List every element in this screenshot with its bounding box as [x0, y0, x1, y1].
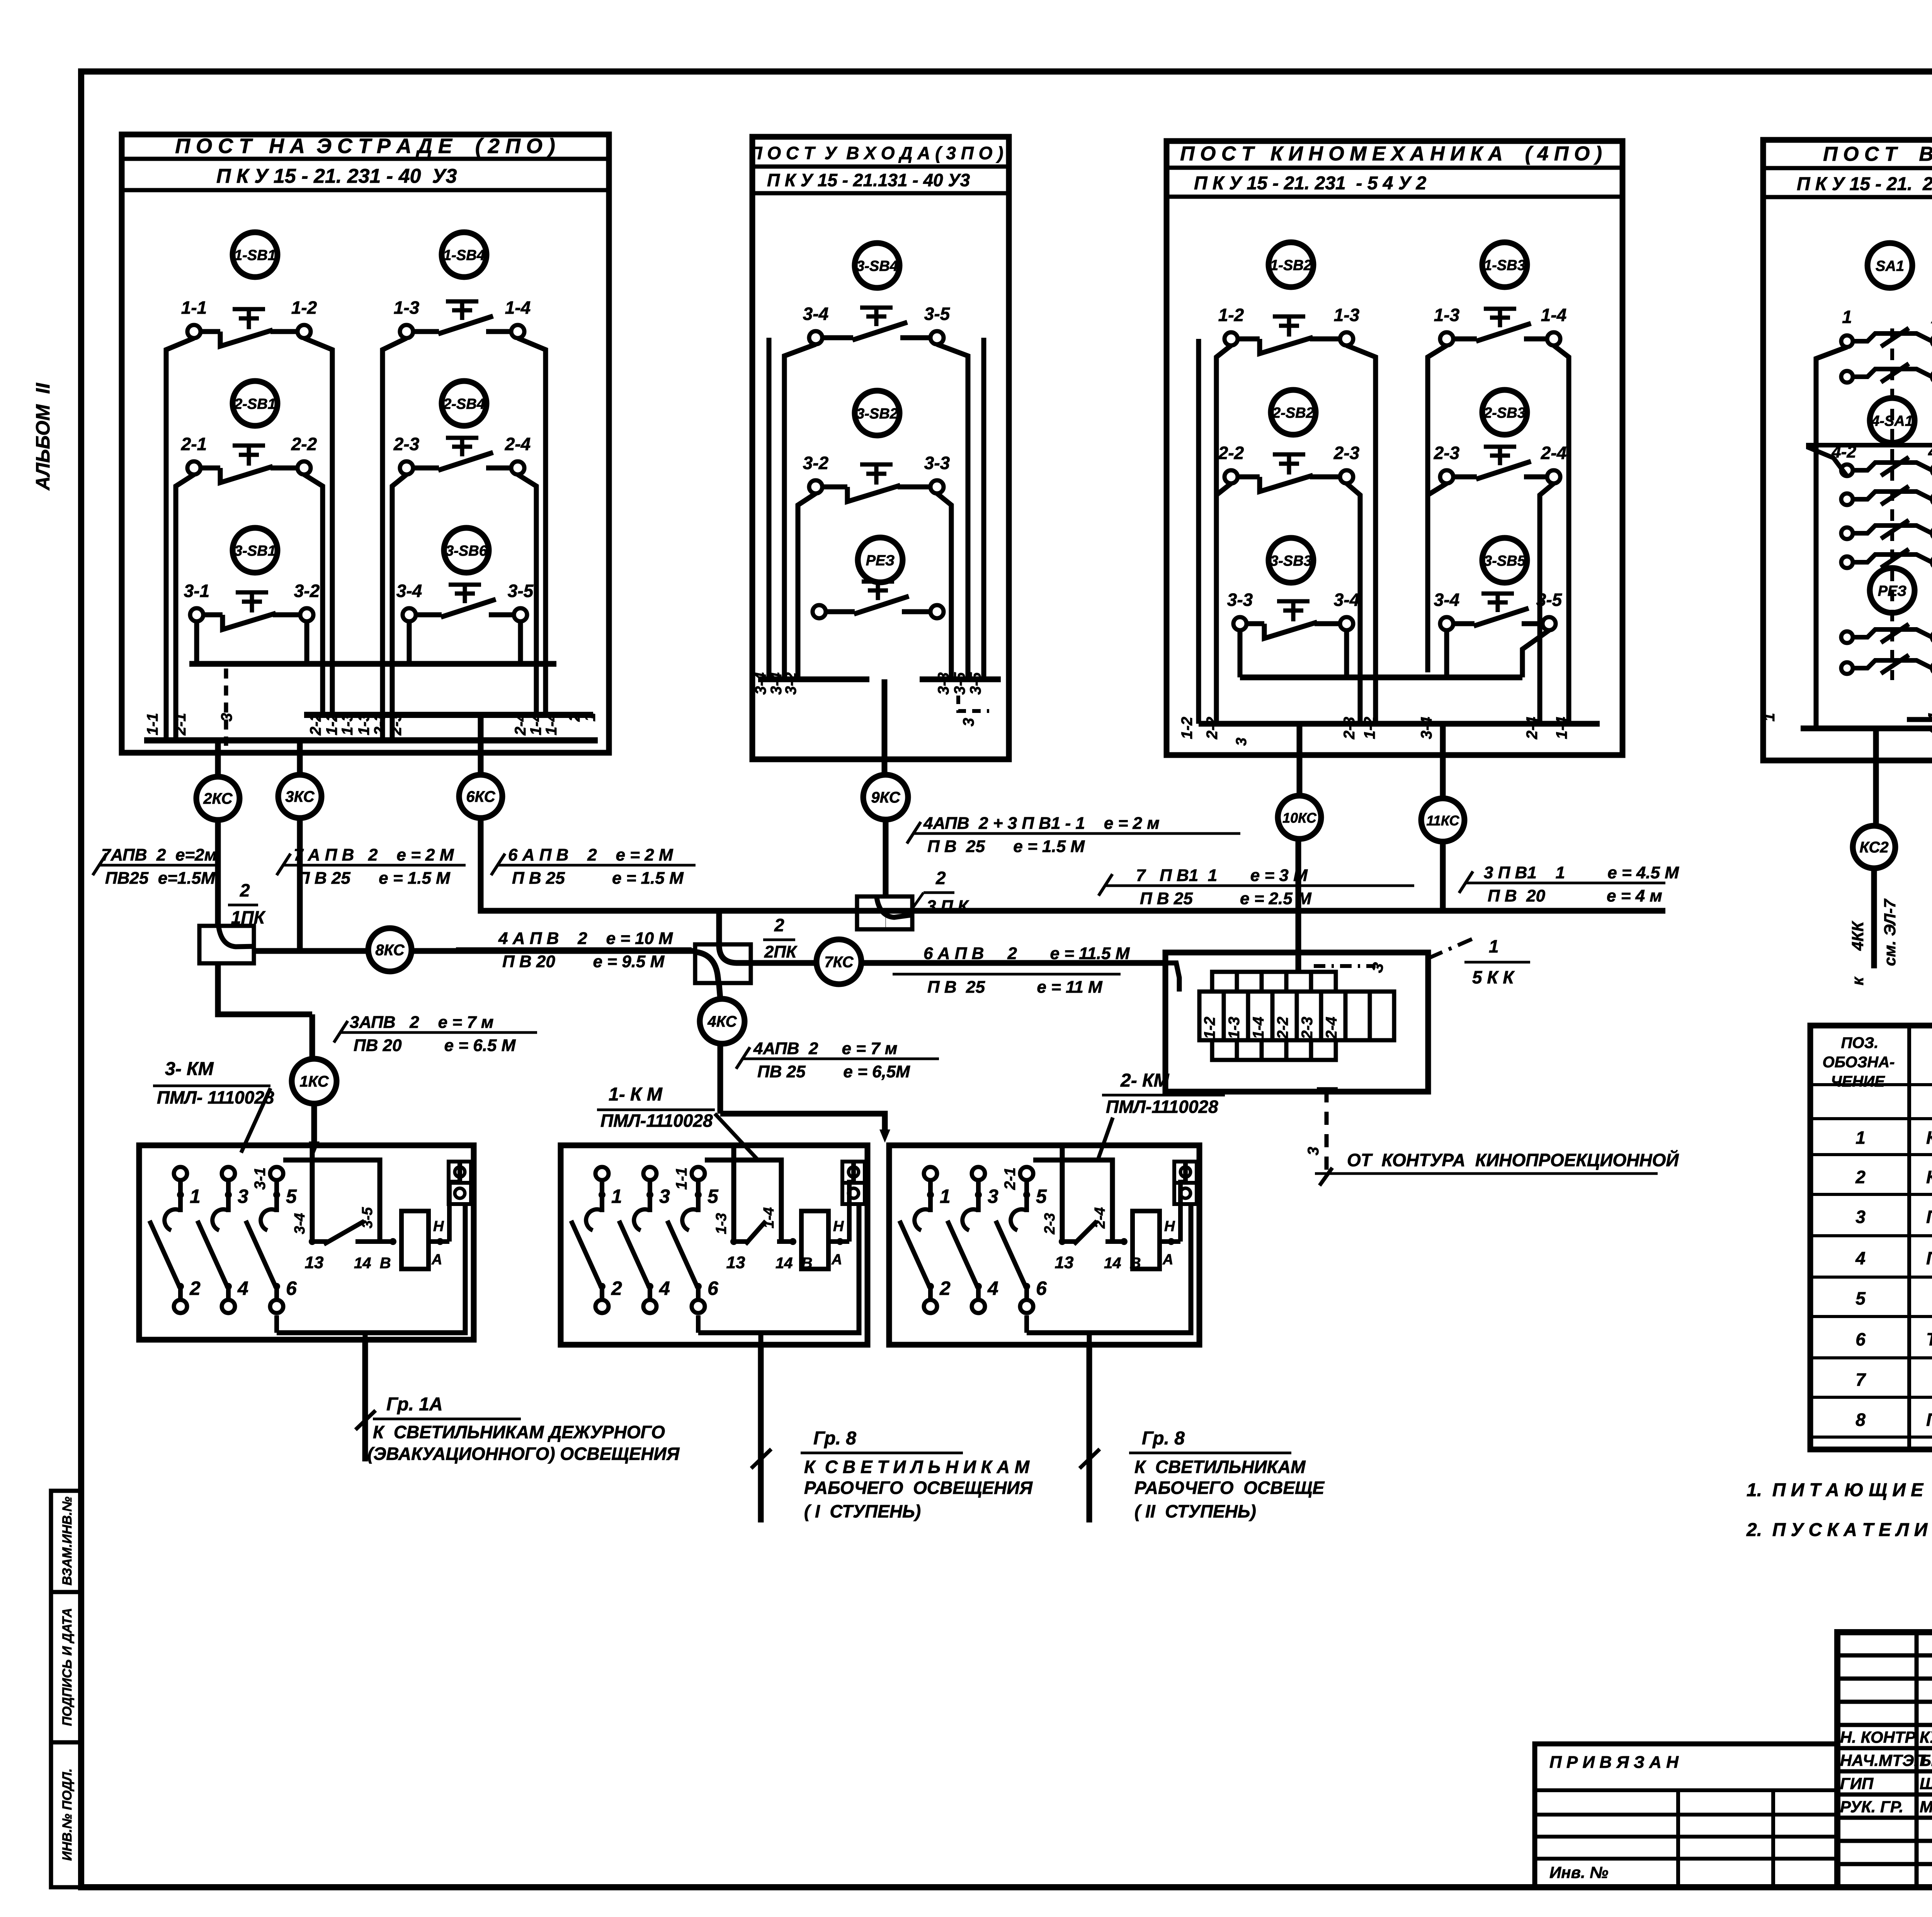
contact 2-3/2-4 — [400, 461, 413, 475]
contact 1-3/1-4 — [1440, 332, 1453, 345]
svg-text:2: 2 — [240, 880, 250, 900]
label 4APV+3PV1 — [912, 832, 1240, 835]
svg-text:1-2: 1-2 — [1179, 717, 1196, 739]
title block — [1837, 1632, 1932, 1887]
svg-text:2. П У С К А Т Е Л И 1 - К: 2. П У С К А Т Е Л И 1 - К М ... 3 К М У… — [1746, 1520, 1932, 1540]
svg-text:8: 8 — [1855, 1410, 1866, 1430]
svg-text:ШЕЛЕВИЛЯ: ШЕЛЕВИЛЯ — [1920, 1774, 1932, 1793]
svg-text:13: 13 — [1055, 1253, 1074, 1272]
svg-text:1-2: 1-2 — [291, 298, 317, 318]
svg-text:1-2: 1-2 — [323, 713, 340, 735]
svg-text:3-5: 3-5 — [508, 581, 534, 601]
svg-text:3: 3 — [659, 1186, 670, 1207]
svg-text:3: 3 — [238, 1186, 248, 1207]
svg-text:2: 2 — [774, 915, 784, 935]
wire 6KS down and right bus3 — [481, 818, 1665, 911]
svg-text:3-5: 3-5 — [924, 304, 951, 324]
svg-text:1-3: 1-3 — [394, 298, 420, 318]
svg-text:4КК: 4КК — [1849, 920, 1867, 951]
contact 3-4/3-5 — [403, 608, 416, 621]
contact 1/A — [1841, 335, 1853, 347]
5KK internal dash-dot mark — [1314, 964, 1376, 968]
svg-text:П В 25 е = 1.5 М: П В 25 е = 1.5 М — [927, 837, 1085, 856]
button 3-SB5 — [1482, 538, 1527, 583]
contact 2-3/2-4 — [1440, 470, 1453, 483]
selector REZ left — [1870, 568, 1915, 613]
svg-text:ПОДПИСЬ И ДАТА: ПОДПИСЬ И ДАТА — [60, 1608, 75, 1726]
svg-text:7: 7 — [1855, 1369, 1866, 1390]
svg-text:ГИП: ГИП — [1840, 1774, 1874, 1793]
svg-text:П В 20 е = 4 м: П В 20 е = 4 м — [1488, 886, 1662, 905]
svg-text:2-3: 2-3 — [1341, 717, 1358, 740]
svg-text:4: 4 — [659, 1277, 670, 1299]
button 2-SB4 — [442, 381, 486, 426]
svg-text:К О Р О Б К А У 272 У Х: К О Р О Б К А У 272 У Х Л 3 — [1926, 1167, 1932, 1187]
svg-text:4: 4 — [987, 1277, 998, 1299]
svg-text:3-3: 3-3 — [1227, 590, 1253, 610]
junction KS2 — [1853, 826, 1895, 868]
svg-text:13: 13 — [726, 1253, 745, 1272]
svg-text:1: 1 — [1855, 1128, 1866, 1148]
wire 10KS down to 5KK — [1296, 839, 1301, 972]
wire 4KS branch — [719, 985, 720, 999]
wires box2 — [784, 344, 816, 679]
contact 1-2/1-3 — [1225, 332, 1238, 345]
svg-text:2-SB2: 2-SB2 — [1272, 405, 1314, 421]
svg-text:3-3: 3-3 — [924, 453, 950, 473]
svg-text:3-4: 3-4 — [292, 1213, 308, 1234]
svg-text:2-2: 2-2 — [307, 713, 324, 736]
svg-text:ПМЛ-1110028: ПМЛ-1110028 — [600, 1111, 713, 1131]
svg-text:2-3: 2-3 — [1042, 1213, 1058, 1235]
svg-text:Гр. 8: Гр. 8 — [1142, 1428, 1185, 1449]
svg-text:ОТ КОНТУРА КИНОПРОЕКЦИОННОЙ: ОТ КОНТУРА КИНОПРОЕКЦИОННОЙ — [1347, 1150, 1679, 1170]
post box 2PO - POST NA ESTRADE — [122, 134, 609, 753]
svg-text:3-4: 3-4 — [803, 304, 828, 324]
wire taps to KS circles — [215, 740, 221, 777]
svg-text:П В 25 е = 1.5 М: П В 25 е = 1.5 М — [512, 869, 684, 888]
svg-text:10КС: 10КС — [1282, 810, 1317, 826]
svg-text:2-1: 2-1 — [181, 434, 207, 454]
svg-text:6: 6 — [286, 1277, 297, 1299]
svg-text:ПВ25 е=1.5М: ПВ25 е=1.5М — [105, 869, 216, 888]
svg-text:3-SB5: 3-SB5 — [1484, 553, 1526, 569]
5KK label leader dash-dot — [1428, 939, 1472, 958]
svg-text:3-SB6: 3-SB6 — [446, 543, 488, 559]
svg-text:3-4: 3-4 — [396, 581, 422, 601]
svg-text:П В 25 е = 11 М: П В 25 е = 11 М — [927, 978, 1103, 997]
svg-text:А: А — [831, 1252, 842, 1268]
svg-text:1-2: 1-2 — [1218, 305, 1244, 325]
svg-text:5: 5 — [1036, 1186, 1047, 1207]
svg-text:5: 5 — [707, 1186, 719, 1207]
svg-text:2: 2 — [935, 868, 946, 888]
wire 2KS chain down — [215, 820, 221, 926]
svg-text:2: 2 — [611, 1277, 622, 1299]
svg-text:2-SB1: 2-SB1 — [234, 396, 276, 412]
svg-text:1: 1 — [582, 713, 599, 721]
wire below KS2 — [1871, 868, 1877, 968]
svg-text:5: 5 — [1855, 1288, 1866, 1308]
junction 2KS — [196, 777, 240, 820]
svg-text:ПМЛ- 1110028: ПМЛ- 1110028 — [157, 1087, 274, 1107]
svg-text:2-4: 2-4 — [512, 713, 529, 736]
contact 2-2/2-3 — [1225, 470, 1238, 483]
svg-text:13: 13 — [305, 1253, 324, 1272]
svg-text:3-SB4: 3-SB4 — [856, 258, 898, 274]
svg-text:3-SB1: 3-SB1 — [234, 543, 276, 559]
label 7PV1 — [1104, 885, 1414, 887]
svg-text:НАЧ.МТЭП: НАЧ.МТЭП — [1840, 1751, 1926, 1769]
svg-text:Гр. 8: Гр. 8 — [813, 1428, 856, 1449]
post box 4PO - POST KINOMEHANIKA — [1167, 141, 1622, 755]
svg-text:3-5: 3-5 — [359, 1207, 376, 1228]
bus down to 1KS — [310, 1014, 315, 1058]
svg-text:1-4: 1-4 — [1541, 305, 1566, 325]
svg-text:П К У 15 - 21. 231 - 40 У3: П К У 15 - 21. 231 - 40 У3 — [216, 165, 457, 187]
svg-text:2КС: 2КС — [203, 790, 233, 807]
svg-text:к: к — [1849, 976, 1867, 985]
svg-text:3: 3 — [960, 718, 977, 726]
svg-text:МОРОЗ: МОРОЗ — [1920, 1798, 1932, 1816]
selector 4-SA1 — [1870, 398, 1915, 443]
wire to 10KS — [1297, 724, 1303, 795]
svg-text:П В 25 е = 1.5 М: П В 25 е = 1.5 М — [298, 869, 451, 888]
contact 2-1/2-2 — [187, 461, 201, 475]
label 3PV1 — [1464, 882, 1665, 885]
svg-text:2-3: 2-3 — [1299, 1017, 1316, 1039]
svg-text:ИНВ.№ ПОДЛ.: ИНВ.№ ПОДЛ. — [60, 1768, 75, 1861]
svg-text:Гр. 1А: Гр. 1А — [386, 1394, 443, 1415]
svg-text:2-SB3: 2-SB3 — [1483, 405, 1526, 421]
svg-text:2: 2 — [1855, 1167, 1866, 1187]
arrow ot kontura kinoproekcionnoj — [1320, 1168, 1332, 1186]
svg-text:1ПК: 1ПК — [231, 907, 266, 927]
svg-text:2-3: 2-3 — [1434, 443, 1460, 463]
svg-text:2-1: 2-1 — [172, 713, 189, 736]
dashed linkage lines — [1890, 328, 1894, 680]
junction 3KS — [278, 775, 321, 818]
svg-text:РУК. ГР.: РУК. ГР. — [1840, 1798, 1903, 1816]
svg-text:1: 1 — [1842, 307, 1852, 327]
svg-text:ТРУБЫ ТУ6-19- 051-249-79: ТРУБЫ ТУ6-19- 051-249-79 — [1926, 1329, 1932, 1349]
svg-text:1-4: 1-4 — [1250, 1017, 1267, 1039]
svg-text:РАБОЧЕГО ОСВЕЩЕНИЯ: РАБОЧЕГО ОСВЕЩЕНИЯ — [804, 1478, 1033, 1498]
button 3-SB6 — [444, 528, 489, 573]
svg-text:7 П В1 1 е = 3 М: 7 П В1 1 е = 3 М — [1136, 866, 1308, 885]
svg-text:К С В Е Т И Л Ь Н И К А М: К С В Е Т И Л Ь Н И К А М — [804, 1457, 1030, 1477]
svg-text:6: 6 — [1036, 1277, 1047, 1299]
2PK north entry from 6KS bus — [716, 911, 722, 947]
wire 3KS down to bus1 — [297, 818, 303, 951]
wire 11KS to bus3 — [1440, 842, 1446, 911]
svg-text:1-4: 1-4 — [1553, 717, 1570, 739]
svg-text:П В 25 е = 2.5 М: П В 25 е = 2.5 М — [1140, 889, 1312, 908]
wire left loop row1 — [166, 338, 194, 740]
svg-text:2-3: 2-3 — [388, 713, 405, 736]
svg-text:14 В: 14 В — [354, 1255, 391, 1272]
svg-text:5 К К: 5 К К — [1472, 967, 1515, 987]
5KK bus2 entry jog — [1165, 963, 1179, 992]
button 3-SB3 — [1269, 538, 1313, 583]
wire 1KS into 3-KM box — [311, 1104, 317, 1145]
svg-text:2-4: 2-4 — [1524, 717, 1541, 740]
button 1-SB1 — [233, 232, 277, 277]
svg-text:1-SB2: 1-SB2 — [1270, 257, 1312, 274]
svg-text:см. ЭЛ-7: см. ЭЛ-7 — [1881, 898, 1899, 966]
wire to 11KS — [1440, 724, 1446, 798]
svg-text:2-4: 2-4 — [505, 434, 531, 454]
svg-text:1-1: 1-1 — [673, 1167, 690, 1190]
junction 11KS — [1421, 798, 1464, 842]
svg-text:6: 6 — [707, 1277, 719, 1299]
wire 4KS to 1-KM box — [720, 1114, 885, 1133]
svg-text:( I СТУПЕНЬ): ( I СТУПЕНЬ) — [804, 1501, 921, 1521]
inner bus row3 — [189, 661, 556, 667]
wire row3 — [194, 621, 199, 664]
svg-text:К СВЕТИЛЬНИКАМ ДЕЖУРНОГО: К СВЕТИЛЬНИКАМ ДЕЖУРНОГО — [373, 1422, 665, 1442]
svg-text:4: 4 — [237, 1277, 248, 1299]
svg-text:РАБОЧЕГО ОСВЕЩЕ: РАБОЧЕГО ОСВЕЩЕ — [1134, 1478, 1325, 1498]
svg-text:3-1: 3-1 — [184, 581, 209, 601]
svg-text:П Р И В Я З А Н: П Р И В Я З А Н — [1549, 1753, 1679, 1772]
terminal box 5KK — [1165, 953, 1428, 1092]
label 4APV 10m — [456, 947, 692, 950]
junction 6KS — [459, 775, 502, 818]
contact 1-3/1-4 — [400, 325, 413, 338]
bottom bus — [144, 737, 598, 743]
svg-text:2- КМ: 2- КМ — [1120, 1070, 1170, 1091]
svg-text:3-2: 3-2 — [803, 453, 829, 473]
3-KM outgoing group label Gr.1A — [362, 1340, 368, 1461]
svg-text:П К У 15 - 21. 231 - 40 У 3: П К У 15 - 21. 231 - 40 У 3 — [1797, 174, 1932, 194]
contact 3-4/3-5 — [809, 331, 822, 344]
svg-text:1-SB1: 1-SB1 — [234, 247, 276, 264]
svg-text:3-2: 3-2 — [294, 581, 320, 601]
contact 3-1/3-2 — [190, 608, 203, 621]
svg-text:1: 1 — [190, 1186, 201, 1207]
svg-text:РЕЗ: РЕЗ — [866, 553, 895, 569]
bus2 from 2PK via 7KS to 5KK — [751, 960, 817, 966]
svg-text:П Р О В О Д П Э 1: П Р О В О Д П Э 1 — [1926, 1248, 1932, 1268]
svg-text:3-4: 3-4 — [1434, 590, 1459, 610]
svg-text:Н: Н — [1164, 1218, 1175, 1235]
svg-text:Н: Н — [833, 1218, 844, 1235]
contact 3-4/3-5 — [1440, 617, 1453, 630]
contact 4-2/4-1 — [1841, 464, 1853, 476]
pull box 3PK — [857, 896, 912, 929]
svg-text:2-4: 2-4 — [1092, 1207, 1108, 1229]
contact left 3 — [1841, 527, 1853, 539]
pull box 2PK — [695, 944, 751, 983]
svg-text:К СВЕТИЛЬНИКАМ: К СВЕТИЛЬНИКАМ — [1134, 1457, 1306, 1477]
svg-text:АЛЬБОМ II: АЛЬБОМ II — [32, 383, 54, 491]
svg-text:1-4: 1-4 — [527, 713, 544, 735]
svg-text:П О С Т В А Х Т Е Р А: П О С Т В А Х Т Е Р А ( 1 П О ) — [1823, 143, 1932, 165]
junction 1KS — [292, 1059, 337, 1104]
button 1-SB4 — [442, 232, 486, 277]
svg-text:3-4: 3-4 — [1334, 590, 1359, 610]
svg-text:SA1: SA1 — [1876, 258, 1904, 274]
svg-text:1-SB4: 1-SB4 — [443, 247, 485, 264]
svg-text:( II СТУПЕНЬ): ( II СТУПЕНЬ) — [1134, 1501, 1256, 1521]
junction 7KS — [816, 939, 861, 984]
selector SA1 — [1867, 243, 1912, 288]
svg-text:3 П К: 3 П К — [927, 897, 969, 916]
svg-text:4КС: 4КС — [707, 1013, 737, 1030]
svg-text:6КС: 6КС — [466, 788, 495, 805]
svg-text:1-3: 1-3 — [1334, 305, 1360, 325]
svg-text:3-4: 3-4 — [1418, 717, 1435, 739]
svg-text:П К У 15 - 21.131 - 40 У3: П К У 15 - 21.131 - 40 У3 — [767, 170, 970, 190]
svg-text:1-4: 1-4 — [761, 1207, 777, 1228]
button 3-SB4 — [855, 243, 900, 288]
svg-text:1- К М: 1- К М — [609, 1084, 663, 1105]
svg-text:ЧЕНИЕ: ЧЕНИЕ — [1831, 1073, 1885, 1090]
svg-text:1-SB3: 1-SB3 — [1484, 257, 1526, 274]
dashed linkage — [224, 668, 228, 746]
parts table — [1810, 1026, 1932, 1449]
svg-text:2-2: 2-2 — [291, 434, 317, 454]
svg-text:1-4: 1-4 — [543, 713, 560, 735]
wire 9KS down to 3PK — [883, 820, 889, 896]
svg-text:3КС: 3КС — [285, 788, 315, 805]
svg-text:2-3: 2-3 — [371, 713, 388, 736]
bus1 from 1PK to 2PK via 8KS — [254, 948, 368, 954]
svg-text:ПМЛ-1110028: ПМЛ-1110028 — [1106, 1097, 1218, 1117]
contact rez — [813, 605, 826, 618]
svg-text:6 А П В 2 е = 11.5 М: 6 А П В 2 е = 11.5 М — [923, 944, 1130, 963]
svg-text:П О С Т Н А Э С Т Р А Д Е: П О С Т Н А Э С Т Р А Д Е ( 2 П О ) — [175, 134, 555, 158]
svg-text:7КС: 7КС — [824, 954, 854, 971]
1-KM outgoing group label Gr.8 — [758, 1345, 764, 1522]
svg-text:П Р О Ф И Л Ь К 238 У 2: П Р О Ф И Л Ь К 238 У 2 — [1926, 1207, 1932, 1227]
svg-text:11КС: 11КС — [1426, 813, 1459, 828]
svg-text:К О Р О Б К А У 614 А У 2: К О Р О Б К А У 614 А У 2 — [1926, 1128, 1932, 1148]
bottom bus box3 — [1199, 721, 1600, 727]
svg-text:6: 6 — [1855, 1329, 1866, 1349]
label 4APV 7m — [742, 1058, 939, 1060]
privyazan table — [1535, 1744, 1837, 1887]
svg-text:3-3: 3-3 — [935, 672, 952, 695]
svg-text:4 А П В 2 е = 10 М: 4 А П В 2 е = 10 М — [498, 929, 673, 948]
svg-text:1-3: 1-3 — [1434, 305, 1460, 325]
contact left 4 — [1841, 556, 1853, 568]
svg-text:1КС: 1КС — [299, 1073, 329, 1090]
svg-text:1: 1 — [1489, 936, 1499, 956]
2-KM outgoing group label Gr.8 II — [1087, 1345, 1092, 1522]
svg-text:1-2: 1-2 — [1201, 1017, 1218, 1039]
svg-text:7 А П В 2 е = 2 М: 7 А П В 2 е = 2 М — [294, 845, 454, 864]
svg-text:ВЗАМ.ИНВ.№: ВЗАМ.ИНВ.№ — [60, 1497, 75, 1585]
post box 3PO - POST U VHODA — [752, 137, 1009, 759]
dashed mark 3 — [958, 696, 989, 711]
svg-text:Н. КОНТР: Н. КОНТР — [1840, 1728, 1916, 1746]
svg-text:2-2: 2-2 — [1204, 717, 1221, 740]
button 1-SB2 — [1269, 242, 1313, 287]
svg-text:2-1: 2-1 — [1002, 1167, 1019, 1190]
svg-text:4АПВ 2 е = 7 м: 4АПВ 2 е = 7 м — [753, 1039, 897, 1058]
svg-text:1-3: 1-3 — [355, 713, 372, 735]
contact 4-4 row — [1841, 493, 1853, 505]
svg-text:КУНИНА: КУНИНА — [1920, 1728, 1932, 1746]
4-2 long jumper — [1808, 445, 1932, 476]
svg-text:Н: Н — [433, 1218, 444, 1235]
svg-text:1: 1 — [1761, 713, 1778, 721]
svg-text:1. П И Т А Ю Щ И Е Л И Н И: 1. П И Т А Ю Щ И Е Л И Н И И К П У С К А… — [1747, 1480, 1932, 1500]
svg-text:ПВ 25 е = 6,5М: ПВ 25 е = 6,5М — [757, 1062, 910, 1081]
svg-text:ОБОЗНА-: ОБОЗНА- — [1823, 1054, 1895, 1071]
svg-text:1-3: 1-3 — [339, 713, 356, 735]
svg-text:3-4: 3-4 — [752, 672, 769, 695]
dashed wire below 5KK - ot kontura — [1317, 1087, 1338, 1092]
svg-text:3-SB2: 3-SB2 — [856, 406, 898, 422]
wire to 9KS — [882, 679, 888, 774]
svg-text:9КС: 9КС — [871, 789, 900, 806]
5KK terminal strip labeled row — [1199, 992, 1224, 1040]
svg-text:1: 1 — [611, 1186, 622, 1207]
button 2-SB1 — [233, 381, 277, 426]
svg-text:КС2: КС2 — [1859, 839, 1888, 856]
5KK terminal strip lower squares — [1212, 1040, 1237, 1060]
svg-text:1-4: 1-4 — [505, 298, 531, 318]
label 7APV at 2KS — [98, 864, 216, 867]
button 3-SB2 — [855, 391, 900, 435]
svg-text:8КС: 8КС — [375, 942, 405, 959]
svg-text:2-3: 2-3 — [1333, 443, 1360, 463]
svg-text:2-SB4: 2-SB4 — [443, 396, 485, 412]
svg-text:Инв. №: Инв. № — [1549, 1863, 1608, 1881]
svg-text:7АПВ 2 е=2м: 7АПВ 2 е=2м — [101, 845, 217, 864]
svg-text:3: 3 — [1305, 1147, 1322, 1155]
label 7APV at 3KS — [282, 864, 466, 867]
svg-text:(ЭВАКУАЦИОННОГО) ОСВЕЩЕНИЯ: (ЭВАКУАЦИОННОГО) ОСВЕЩЕНИЯ — [367, 1444, 680, 1464]
contact aux left — [1841, 371, 1853, 383]
left stamp column — [51, 1491, 81, 1887]
label 3APV — [339, 1031, 537, 1034]
svg-text:2ПК: 2ПК — [764, 942, 798, 961]
svg-text:3-2: 3-2 — [782, 672, 799, 695]
button 2-SB2 — [1271, 390, 1316, 435]
wires box3 — [1196, 339, 1201, 724]
svg-text:3-5: 3-5 — [951, 672, 968, 695]
svg-text:3: 3 — [1855, 1207, 1866, 1227]
button 1-SB3 — [1482, 242, 1527, 287]
svg-text:2: 2 — [939, 1277, 951, 1299]
label 6APV at 6KS — [497, 864, 696, 867]
junction 10KS — [1278, 796, 1321, 839]
svg-text:2-3: 2-3 — [393, 434, 420, 454]
contact 3-2/3-3 — [809, 480, 822, 493]
svg-text:5: 5 — [286, 1186, 297, 1207]
svg-text:П В 20 е = 9.5 М: П В 20 е = 9.5 М — [502, 952, 665, 971]
svg-text:Провод АППВ: Провод АППВ — [1926, 1410, 1932, 1430]
svg-text:3-1: 3-1 — [252, 1167, 269, 1190]
svg-text:3: 3 — [988, 1186, 998, 1207]
wire row2 — [176, 475, 194, 740]
svg-text:1-1: 1-1 — [181, 298, 207, 318]
svg-text:1-3: 1-3 — [713, 1213, 730, 1234]
svg-text:1-2: 1-2 — [1361, 717, 1378, 739]
wire below 1PK to elbow — [218, 963, 312, 1014]
5KK terminal strip upper squares — [1212, 972, 1237, 992]
button 2-SB3 — [1482, 390, 1527, 435]
svg-text:3АПВ 2 е = 7 м: 3АПВ 2 е = 7 м — [350, 1013, 493, 1032]
svg-text:2-4: 2-4 — [1541, 443, 1566, 463]
svg-text:БЕГАНСКАЯ: БЕГАНСКАЯ — [1920, 1751, 1932, 1769]
junction 4KS — [700, 999, 745, 1044]
svg-text:3-5: 3-5 — [967, 672, 984, 695]
